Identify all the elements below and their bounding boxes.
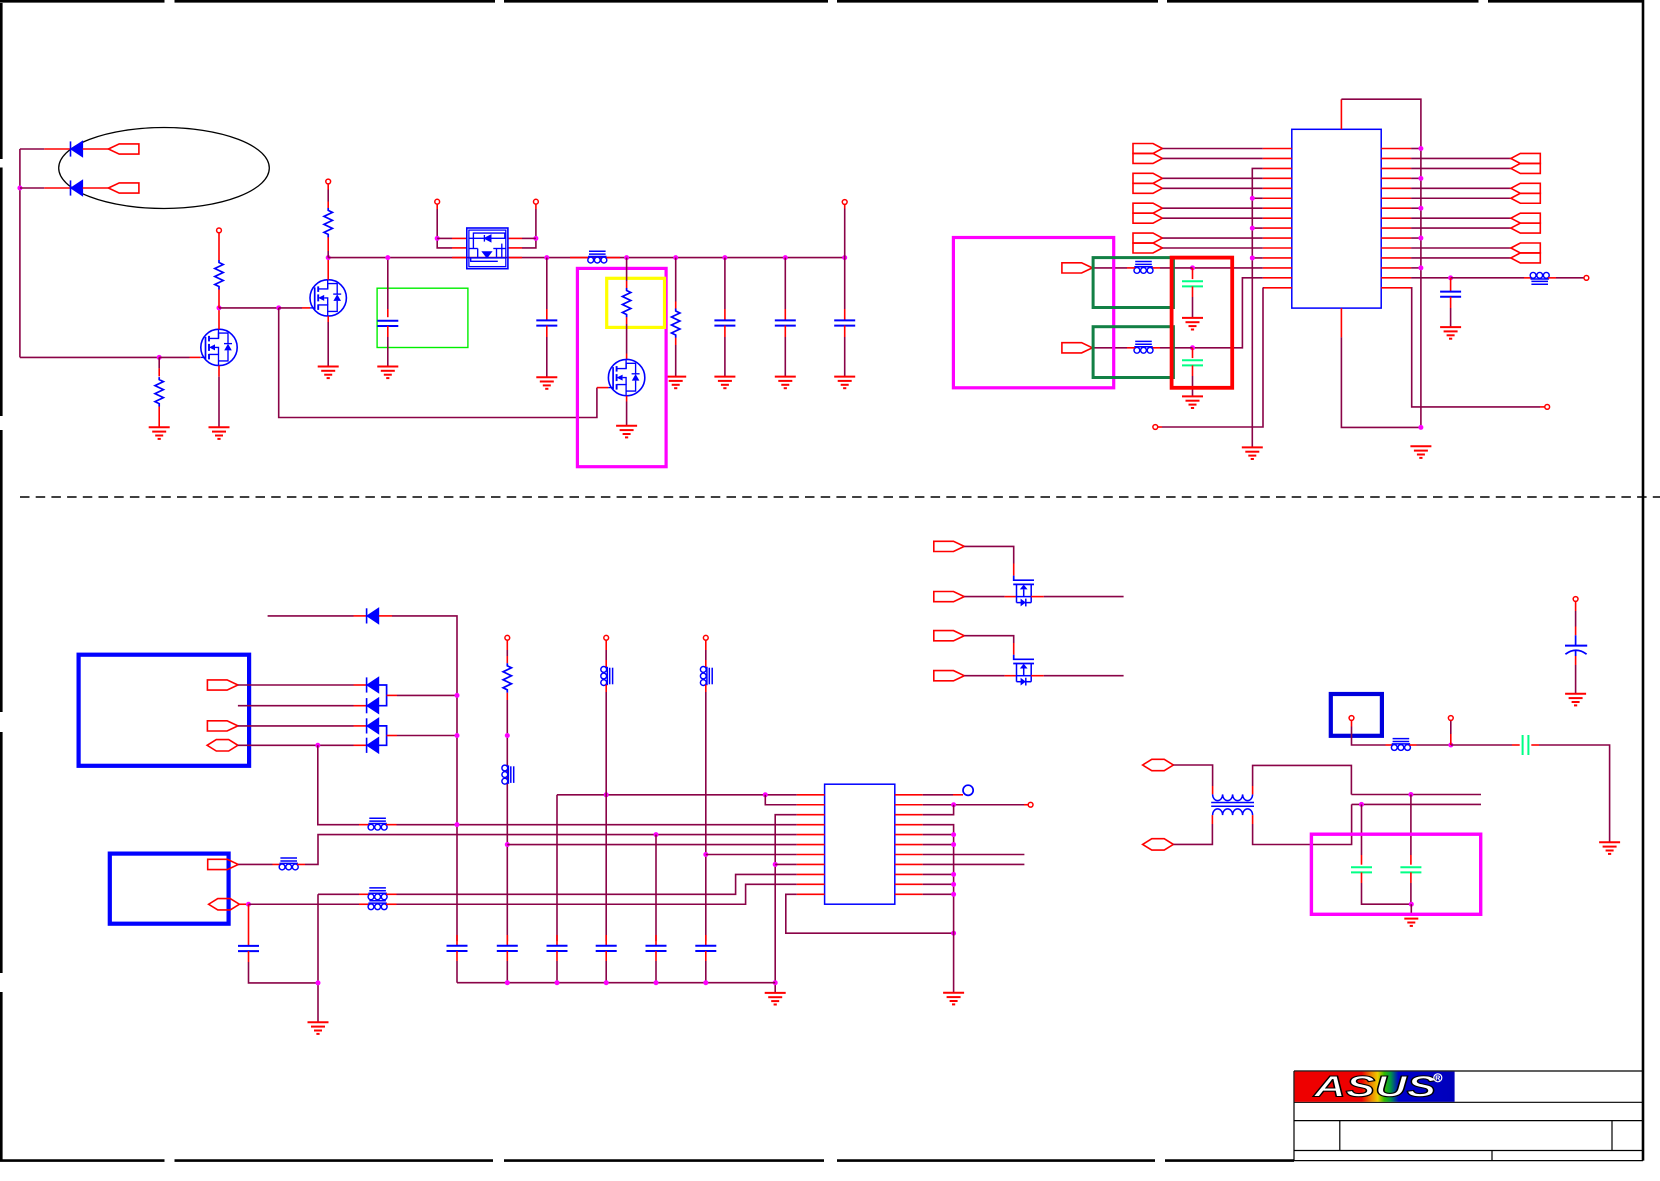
section divider dashed line — [20, 496, 1660, 498]
capacitor C21 chain — [1400, 795, 1421, 905]
magenta highlight box Q3 — [577, 268, 666, 466]
wire C18 to ground drop — [1531, 744, 1539, 746]
junction right bus row7 — [1418, 206, 1423, 211]
ferrite bead FB8 — [368, 888, 387, 900]
connector box J1 — [79, 655, 250, 766]
wire U4 to bead FB11 — [1351, 720, 1353, 726]
terminal C19 top — [1573, 597, 1578, 602]
wire diode D1 row — [268, 615, 354, 617]
wire row15 to terminal — [1162, 288, 1263, 427]
pin stub D5 left — [354, 744, 367, 746]
wire pack left gate tap — [437, 237, 452, 239]
ground right drop — [1599, 842, 1620, 854]
transformer T1 — [1211, 794, 1254, 815]
junction row A C-F — [1408, 792, 1413, 797]
transistor Q4 — [1013, 576, 1034, 607]
pin stub bead FB1 left — [570, 257, 588, 259]
terminal above junction — [1448, 716, 1453, 721]
ferrite bead FB1 — [588, 251, 607, 263]
sheet border bottom edge — [0, 1159, 1294, 1162]
wire jog row2 row3 — [923, 805, 954, 815]
wire row to diode D6 — [20, 148, 44, 150]
pin stub R2 top — [218, 230, 220, 260]
ground right bus — [953, 933, 955, 993]
wire T1 secondary bottom — [1252, 815, 1254, 824]
wire pack left terminal drop — [436, 204, 438, 209]
dark green box FB4 — [1093, 327, 1173, 378]
junction right bus row4 — [1418, 176, 1423, 181]
pin stub D4 left — [354, 725, 367, 727]
wire U1 right row7 to bus — [1411, 207, 1421, 209]
wire column C — [556, 795, 558, 941]
ground under C7 — [834, 377, 855, 389]
wire row A — [1351, 794, 1481, 796]
wire FB8 to jog row9 — [386, 893, 397, 895]
ground bus foot — [1410, 446, 1431, 458]
wire jog row1 to row2 — [765, 795, 797, 805]
junction left bus row8 — [773, 862, 778, 867]
port connector P-B — [108, 183, 138, 193]
wire U3 right row5 to bus — [923, 834, 954, 836]
wire AGND row to bead FB8 — [318, 893, 359, 895]
wire U1 right row11 to connector — [1411, 247, 1511, 249]
pin stub D2D3 mid — [387, 694, 397, 696]
diode D7 — [71, 180, 83, 195]
input connector P-C — [1062, 263, 1093, 273]
wire gate row to Q1 — [20, 356, 159, 358]
junction row4 column A — [455, 822, 460, 827]
wire row14 to bead FB5 — [1451, 277, 1524, 279]
pin stub bead FB1 right — [607, 257, 621, 259]
wire gate bias row — [219, 307, 279, 309]
input connector pair PL4 — [1133, 233, 1162, 243]
wire U3 right row10 to bus — [923, 883, 954, 885]
wire bead FB4 segment — [1160, 347, 1193, 349]
port connector P-G2 — [934, 631, 965, 641]
junction row13 cap C9 — [1190, 265, 1195, 270]
junction GND rail — [654, 980, 659, 985]
wire PL3 upper to U1 — [1162, 207, 1262, 209]
wire P-G2 to Q5 gate — [964, 636, 1013, 643]
ground under C5 — [714, 377, 735, 389]
sheet border left edge — [0, 3, 3, 1161]
junction right bus row10 — [951, 882, 956, 887]
capacitor C6 chain — [775, 258, 796, 377]
wire U1 left row9 to bus — [1252, 227, 1263, 229]
dual MOSFET pack U2 — [467, 228, 508, 269]
ground under C8 — [1440, 327, 1461, 339]
wire P-H1 to transformer T1 — [1173, 765, 1212, 786]
wire FB3 to connector — [1127, 267, 1135, 269]
junction GND rail — [555, 980, 560, 985]
junction GND rail — [505, 980, 510, 985]
series capacitor C18 — [1523, 735, 1529, 755]
wire FB4 to connector — [1127, 347, 1135, 349]
capacitor C20 chain — [1351, 804, 1411, 904]
pin stub R1 top — [158, 357, 160, 368]
IC U1 left pins — [1263, 149, 1292, 288]
pin stub Q1 gate — [159, 356, 189, 358]
input connector pair PL3 — [1133, 203, 1162, 213]
pin stub pack left mid — [452, 247, 467, 249]
terminal column F — [703, 635, 708, 640]
IC U1 body — [1292, 129, 1381, 308]
wire pack right terminal drop — [535, 204, 537, 209]
wire PL4 upper to U1 — [1162, 237, 1262, 239]
wire row6 to U3 — [507, 844, 797, 846]
wire row7 to U3 — [706, 854, 797, 856]
capacitor C7 chain — [834, 258, 855, 377]
ferrite bead FB9 — [368, 898, 387, 910]
ferrite bead FB7 — [279, 858, 298, 870]
junction rail at R5 — [673, 255, 678, 260]
ground under R1 — [149, 427, 170, 439]
junction FB11 terminal — [1448, 743, 1453, 748]
wire U3 right row11 to bus — [923, 893, 954, 895]
junction right bus row6 — [951, 842, 956, 847]
wire PL1 lower to U1 — [1162, 157, 1262, 159]
port connector P-S1 — [934, 592, 965, 602]
wire FB6 to U3 row4 — [386, 824, 397, 826]
wire J1-A to D2 — [238, 684, 354, 686]
capacitor C4 — [536, 320, 557, 325]
junction loop right bus — [951, 931, 956, 936]
battery pack ellipse — [59, 128, 270, 209]
transistor Q3 — [608, 359, 644, 395]
wire row B — [1352, 803, 1481, 805]
pin stub Q4 right — [1031, 596, 1044, 598]
connector box J2 — [110, 854, 229, 924]
junction pack left — [435, 236, 440, 241]
svg-text:R: R — [1435, 1075, 1440, 1082]
junction right bus row11 — [951, 892, 956, 897]
terminal row14 — [1584, 275, 1589, 280]
output connector pair PR1 — [1511, 153, 1540, 163]
wire J2-B row to bead FB9 — [249, 903, 360, 905]
IC U1 top pin — [1340, 99, 1342, 129]
capacitor C13 — [497, 935, 518, 983]
junction rail at C6 — [783, 255, 788, 260]
magenta highlight box U1 input — [953, 238, 1113, 388]
diode D2 — [367, 677, 379, 692]
wire Q3 source to ground — [626, 396, 628, 402]
capacitor C15 — [596, 935, 617, 983]
diode D1 — [367, 608, 379, 623]
terminal above R3 — [326, 179, 331, 184]
junction J1-C branch — [315, 743, 320, 748]
ground AGND — [308, 1022, 329, 1034]
sheet border top edge — [0, 0, 1644, 3]
wire row2 right to terminal — [923, 804, 1024, 806]
green highlight box — [377, 288, 468, 347]
pin stub Q5 right — [1031, 675, 1044, 677]
pin stub R2 bottom — [218, 289, 220, 308]
IC U1 right pins — [1381, 149, 1411, 288]
wire PL4 lower to U1 — [1162, 247, 1262, 249]
junction GND rail — [703, 980, 708, 985]
wire Q1 source to ground — [218, 366, 220, 377]
wire to series cap C18 — [1451, 744, 1512, 746]
wire U3 row11 loop — [786, 894, 954, 933]
wire U3 right row6 to bus — [923, 844, 954, 846]
pin stub R3 top — [327, 184, 329, 190]
ferrite bead FB5 — [1530, 272, 1549, 284]
wire U1 right row2 to connector — [1411, 157, 1511, 159]
ground under C3 — [377, 367, 398, 379]
capacitor C12 — [447, 935, 468, 983]
wire FB9 to jog row10 — [386, 903, 397, 905]
junction at R1 top — [157, 355, 162, 360]
junction right bus row13 — [1418, 265, 1423, 270]
pin stub pack right upper — [508, 237, 522, 239]
ASUS logo — [1295, 1071, 1455, 1104]
terminal above pack right — [534, 199, 539, 204]
wire right bus — [923, 825, 954, 934]
junction Q2 drain rail — [326, 255, 331, 260]
wire FB11 to junction — [1409, 744, 1416, 746]
pin stub D6 right — [83, 148, 109, 150]
wire U1 right row1 to bus — [1411, 148, 1421, 150]
port connector J2-A — [208, 859, 239, 869]
junction rail at C7 — [842, 255, 847, 260]
ground under C4 — [536, 377, 557, 389]
port connector J2-B — [209, 899, 240, 910]
wire Q4 output — [1044, 596, 1124, 598]
wire left GND bus — [775, 815, 797, 993]
wire U1 right row5 to connector — [1411, 187, 1511, 189]
ground under Q1 — [209, 427, 230, 439]
wire left net vertical — [19, 149, 21, 357]
magenta highlight box output caps — [1311, 834, 1480, 914]
IC U3 right pins — [895, 795, 923, 895]
wire U1 bottom to bus foot — [1341, 337, 1421, 427]
wire row7 right stub — [923, 854, 1025, 856]
wire D2D3 mid to column A — [397, 694, 457, 696]
junction column B row6 — [505, 842, 510, 847]
wire U1 right row9 to connector — [1411, 227, 1511, 229]
terminal column D — [604, 635, 609, 640]
ground under R5 — [665, 377, 686, 389]
port connector P-H1 — [1143, 759, 1174, 770]
resistor R5 chain — [672, 258, 680, 377]
capacitor C9 chain — [1182, 268, 1203, 318]
pin stub D7 right — [83, 187, 109, 189]
wire J1-B to D4 — [238, 725, 354, 727]
junction row1 column D — [604, 792, 609, 797]
junction column A row D2D3 — [455, 693, 460, 698]
wire P-H2 to transformer T1 — [1173, 824, 1212, 844]
junction gate bias — [276, 305, 281, 310]
transistor Q5 — [1013, 655, 1034, 686]
junction on left net — [17, 186, 22, 191]
junction C20 C21 ground — [1409, 902, 1414, 907]
pin stub Q1 drain — [218, 308, 220, 329]
terminal row15 left — [1153, 425, 1158, 430]
wire PL2 upper to U1 — [1162, 177, 1262, 179]
wire row1 right to NC circle — [923, 794, 953, 796]
port connector P-A — [108, 144, 138, 154]
wire row13 to bead FB3 — [1193, 267, 1263, 269]
svg-text:ASUS: ASUS — [1313, 1071, 1436, 1104]
terminal row15 — [1545, 405, 1550, 410]
wire U1 right row4 to bus — [1411, 177, 1421, 179]
junction row2 jog — [951, 802, 956, 807]
wire pack right gate tap — [522, 237, 536, 239]
junction column B row D4D5 — [505, 733, 510, 738]
diode D3 — [367, 698, 379, 713]
junction row5 column E — [654, 832, 659, 837]
junction left bus rail — [773, 980, 778, 985]
capacitor C17 — [695, 935, 716, 983]
wire U3 right row9 to bus — [923, 873, 954, 875]
wire main rail — [328, 257, 845, 259]
capacitor C16 — [646, 935, 667, 983]
wire row14 to C8 — [1411, 277, 1451, 279]
reference box U4 — [1331, 694, 1382, 736]
pin stub R1 bottom — [158, 407, 160, 428]
tie bar D2 D3 — [379, 685, 387, 706]
wire D3 row — [238, 705, 354, 707]
wire row14 left drop — [1193, 278, 1263, 348]
terminal above R2 — [217, 228, 222, 233]
no-connect circle — [963, 785, 973, 795]
resistor R3 — [324, 208, 332, 237]
wire U1 right row12 to connector — [1411, 257, 1511, 259]
junction rail at C5 — [722, 255, 727, 260]
junction above Q1 — [217, 305, 222, 310]
wire PL2 lower to U1 — [1162, 187, 1262, 189]
wire U1 left row12 to bus — [1252, 257, 1263, 259]
wire row13 bead FB3 segment — [1160, 267, 1193, 269]
transistor Q1 — [201, 329, 237, 365]
tie bar D4 D5 — [379, 726, 387, 745]
ground under C10 — [1182, 396, 1203, 408]
ferrite bead FB4 — [1134, 341, 1153, 353]
pin stub D2 left — [354, 684, 367, 686]
port connector J1-A — [207, 680, 238, 690]
junction left bus row9 — [1250, 226, 1255, 231]
wire U1 right row13 to bus — [1411, 267, 1421, 269]
junction bus foot — [1418, 425, 1423, 430]
IC U1 bottom pin — [1340, 308, 1342, 337]
terminal rail VCC — [842, 200, 847, 205]
capacitor C10 chain — [1182, 348, 1203, 397]
wire rail to VCC terminal — [844, 209, 846, 258]
junction left bus row6 — [1250, 196, 1255, 201]
ferrite bead FB6 — [368, 818, 387, 830]
pin stub C4 top — [546, 258, 548, 309]
wire U1 right row8 to connector — [1411, 217, 1511, 219]
wire J1-C drop to bead FB6 — [318, 745, 359, 824]
wire FB7 jog to U3 row5 — [297, 863, 305, 865]
wire P-G1 to Q4 gate — [964, 546, 1013, 563]
ground under C6 — [775, 377, 796, 389]
port connector P-S2 — [934, 671, 965, 681]
junction J2-B cap — [246, 902, 251, 907]
junction GND rail — [604, 980, 609, 985]
junction left bus row12 — [1250, 255, 1255, 260]
junction right bus row1 — [1418, 146, 1423, 151]
pin stub D3 left — [354, 705, 367, 707]
wire J2-A to bead FB7 — [238, 863, 272, 865]
wire J2-B to junction — [239, 903, 246, 905]
wire bias drop vertical — [279, 308, 597, 418]
junction rail at C4 — [544, 255, 549, 260]
output connector pair PR4 — [1511, 243, 1540, 253]
title block frame — [1294, 1071, 1643, 1161]
pin stub pack right mid — [508, 247, 522, 249]
yellow highlight box R4 — [607, 278, 665, 327]
column F chain — [700, 640, 712, 941]
wire PL1 upper to U1 — [1162, 148, 1262, 150]
junction rail at R4 — [624, 255, 629, 260]
capacitor C5 chain — [714, 258, 735, 377]
ferrite bead FB3 — [1134, 262, 1153, 274]
output connector pair PR3 — [1511, 213, 1540, 223]
junction row7 column F — [703, 852, 708, 857]
wire AGND drop — [317, 894, 319, 1022]
port connector P-G1 — [934, 541, 965, 551]
wire D1 to column A — [392, 616, 457, 941]
pin stub D4D5 mid — [387, 735, 397, 737]
wire PL3 lower to U1 — [1162, 217, 1262, 219]
junction pack right — [533, 236, 538, 241]
pin stub Q3 gate — [597, 387, 609, 389]
pin stub pack left upper — [452, 237, 467, 239]
junction row1 jog — [763, 792, 768, 797]
diode D5 — [367, 738, 379, 753]
capacitor C3 chain — [377, 258, 398, 367]
junction column A row D4D5 — [455, 733, 460, 738]
pin stub D1 right — [379, 615, 392, 617]
junction rail at C3 — [385, 255, 390, 260]
input connector pair PL2 — [1133, 173, 1162, 183]
output connector pair PR2 — [1511, 183, 1540, 193]
ground under C19 — [1565, 694, 1586, 706]
junction right bus row9 — [951, 872, 956, 877]
terminal row2 — [1028, 802, 1033, 807]
dark green box FB3 — [1093, 258, 1173, 308]
ground under Q2 — [318, 367, 339, 379]
wire junction to ground — [1410, 904, 1412, 914]
wire Q5 output — [1044, 675, 1124, 677]
wire P-S2 to Q5 — [964, 675, 1004, 677]
ground under Q3 — [616, 426, 637, 438]
pin stub Q2 gate — [279, 307, 302, 309]
resistor R2 — [215, 260, 223, 289]
resistor R4 chain — [622, 258, 630, 360]
pin stub pack left lower — [452, 257, 467, 259]
wire row15 to terminal — [1411, 288, 1540, 407]
ground under C9 — [1182, 318, 1203, 330]
wire T1 secondary top — [1252, 786, 1254, 794]
junction AGND — [316, 980, 321, 985]
pin stub D1 left — [354, 615, 367, 617]
capacitor C14 — [547, 935, 568, 983]
terminal inside U4 — [1349, 716, 1354, 721]
resistor R6 chain — [503, 640, 511, 941]
wire U1 left row6 to bus — [1252, 197, 1263, 199]
junction right bus row5 — [951, 832, 956, 837]
terminal column B — [505, 635, 510, 640]
wire U1 top to right bus — [1341, 99, 1421, 427]
wire GND rail — [457, 982, 775, 984]
wire row8 to U3 — [775, 863, 797, 865]
pin stub R3 bottom — [327, 237, 329, 251]
junction right bus row10 — [1418, 236, 1423, 241]
port connector J1-C — [207, 740, 238, 751]
resistor R1 — [155, 377, 163, 406]
